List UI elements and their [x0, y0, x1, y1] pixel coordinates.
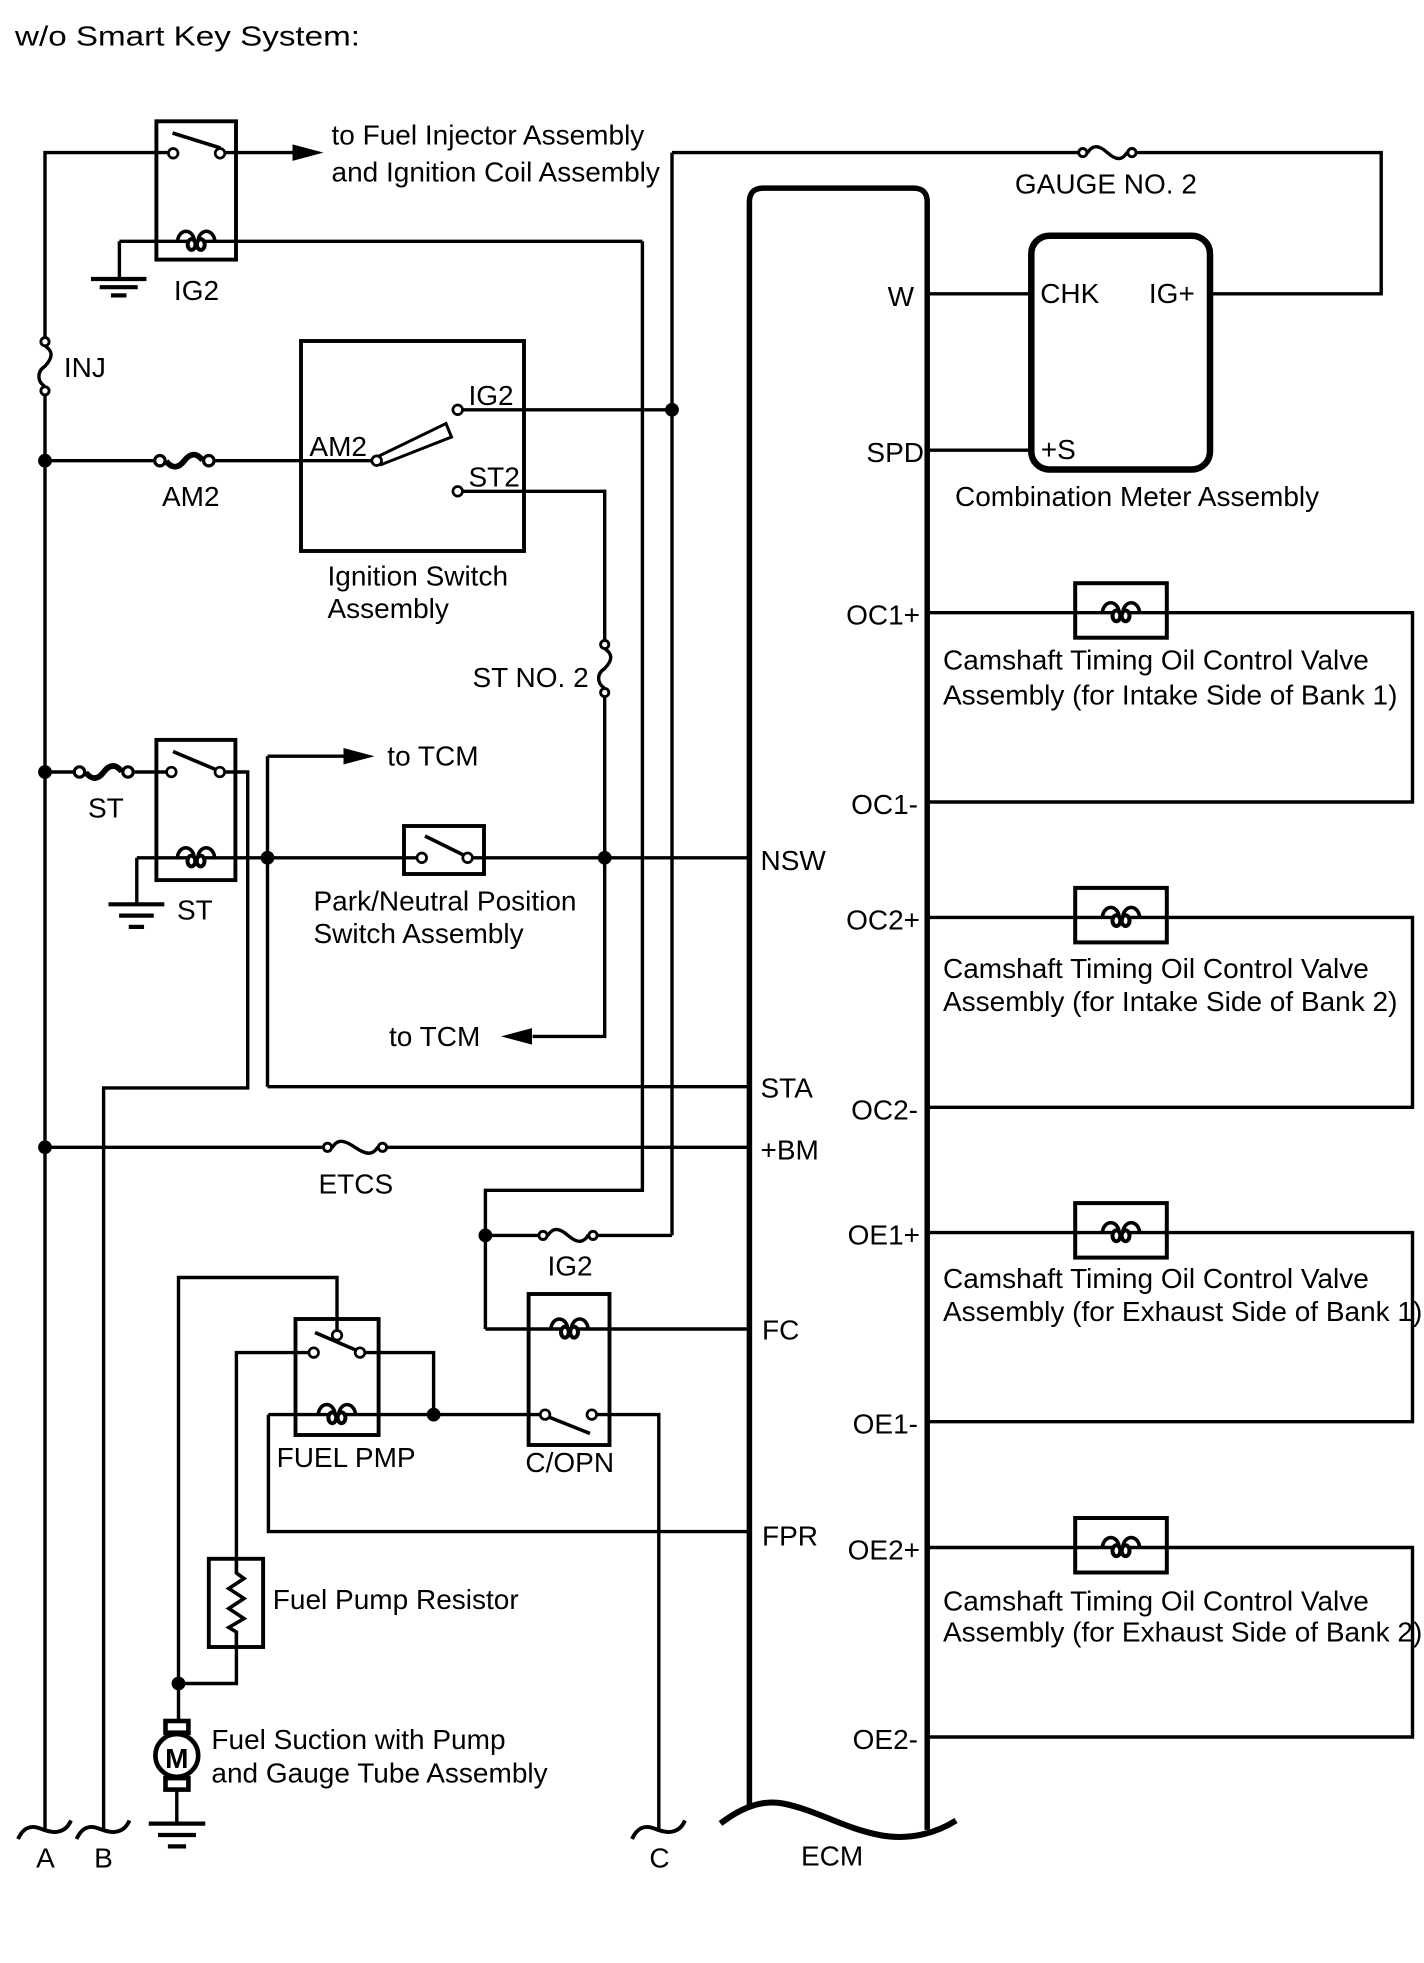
- wire FUEL PMP left contact to resistor: [236, 1353, 309, 1559]
- svg-text:NSW: NSW: [761, 845, 827, 876]
- svg-text:Switch Assembly: Switch Assembly: [314, 918, 524, 949]
- fuse ST: [86, 766, 122, 778]
- svg-text:ST: ST: [88, 793, 124, 824]
- contact park/neutral left: [417, 853, 427, 863]
- wire OE1 loop: [927, 1233, 1412, 1422]
- wire NSW line left: [137, 856, 417, 859]
- svg-text:OC2-: OC2-: [851, 1094, 918, 1125]
- coil IG2 relay: [178, 231, 195, 242]
- motor circle M: [155, 1734, 198, 1777]
- svg-text:IG2: IG2: [548, 1251, 593, 1282]
- relay FUEL PMP box: [296, 1319, 379, 1435]
- wire OC1 loop: [927, 613, 1412, 802]
- wire ST relay output to B: [104, 772, 248, 1829]
- junction dot ETCS row: [38, 1140, 52, 1154]
- svg-text:Assembly (for Exhaust Side of: Assembly (for Exhaust Side of Bank 1): [943, 1296, 1422, 1327]
- contact ignition IG2: [453, 405, 463, 415]
- svg-text:Camshaft Timing Oil Control Va: Camshaft Timing Oil Control Valve: [943, 1263, 1369, 1294]
- junction dot IG2 fuse node: [479, 1229, 493, 1243]
- svg-text:C: C: [649, 1843, 669, 1874]
- wire to TCM upper: [268, 755, 346, 758]
- connector C squiggle: [632, 1821, 685, 1840]
- svg-text:to TCM: to TCM: [389, 1021, 480, 1052]
- resistor zigzag: [229, 1559, 244, 1647]
- svg-text:OE1+: OE1+: [848, 1220, 920, 1251]
- solenoid valve OC2 box: [1075, 888, 1167, 943]
- svg-text:OE2+: OE2+: [848, 1535, 920, 1566]
- fuse ST NO. 2: [599, 649, 611, 688]
- contact ignition ST2: [453, 487, 463, 497]
- wire FUEL PMP top feed: [179, 1278, 338, 1684]
- svg-text:and Gauge Tube Assembly: and Gauge Tube Assembly: [211, 1758, 547, 1789]
- svg-text:FUEL PMP: FUEL PMP: [277, 1442, 416, 1473]
- wire IG2 fuse row: [485, 1234, 537, 1237]
- fuse AM2: [166, 455, 203, 467]
- wire C/OPN output to C: [597, 1415, 659, 1829]
- svg-text:C/OPN: C/OPN: [525, 1447, 614, 1478]
- wire FUEL PMP coil: [268, 1413, 540, 1416]
- svg-text:Park/Neutral Position: Park/Neutral Position: [314, 886, 577, 917]
- wire A-line battery feed: [45, 153, 169, 338]
- switch FUEL PMP lever: [315, 1333, 362, 1353]
- svg-text:Assembly: Assembly: [328, 593, 449, 624]
- wire FUEL PMP right contact: [365, 1353, 434, 1415]
- junction dot IG2 node: [665, 403, 679, 417]
- switch park/neutral lever: [425, 836, 466, 856]
- ground IG2 relay: [91, 277, 147, 281]
- svg-text:STA: STA: [761, 1072, 814, 1103]
- svg-text:+S: +S: [1041, 434, 1076, 465]
- svg-text:Fuel Pump Resistor: Fuel Pump Resistor: [273, 1584, 519, 1615]
- svg-text:Camshaft Timing Oil Control Va: Camshaft Timing Oil Control Valve: [943, 1586, 1369, 1617]
- wire ST row: [45, 770, 73, 773]
- wire ST NO.2 to TCM: [533, 697, 605, 1037]
- solenoid valve OE2 box: [1075, 1518, 1167, 1573]
- svg-text:ECM: ECM: [801, 1841, 863, 1872]
- svg-text:to TCM: to TCM: [387, 741, 478, 772]
- switch ignition lever wedge: [379, 424, 452, 465]
- switch C/OPN lever: [548, 1417, 591, 1434]
- contact FUEL PMP left: [309, 1348, 319, 1358]
- motor top terminal: [166, 1721, 189, 1733]
- wire GAUGE row: [672, 151, 1078, 154]
- contact park/neutral right: [463, 853, 473, 863]
- svg-text:Assembly (for Intake Side of B: Assembly (for Intake Side of Bank 1): [943, 680, 1397, 711]
- wire STA: [268, 1085, 750, 1088]
- svg-text:CHK: CHK: [1040, 278, 1099, 309]
- coil valve OE1: [1102, 1223, 1119, 1234]
- svg-text:FPR: FPR: [762, 1520, 818, 1551]
- coil valve OC2: [1102, 907, 1119, 918]
- contact ignition AM2: [372, 456, 382, 466]
- svg-text:A: A: [36, 1843, 55, 1874]
- wire ignition ST2 output: [463, 491, 605, 640]
- wire FPR line: [268, 1415, 749, 1532]
- ECM torn bottom: [721, 1802, 957, 1837]
- svg-text:M: M: [165, 1743, 188, 1774]
- svg-text:Fuel Suction with Pump: Fuel Suction with Pump: [211, 1724, 505, 1755]
- connector B squiggle: [77, 1821, 130, 1840]
- wire C/OPN coil to FC: [485, 1327, 749, 1330]
- svg-text:SPD: SPD: [866, 437, 924, 468]
- svg-text:Assembly (for Exhaust Side of: Assembly (for Exhaust Side of Bank 2): [943, 1617, 1422, 1648]
- relay IG2 box: [156, 121, 236, 259]
- fuse INJ: [39, 346, 51, 386]
- coil C/OPN: [551, 1319, 568, 1330]
- coil valve OE2: [1102, 1538, 1119, 1549]
- svg-text:INJ: INJ: [64, 352, 106, 383]
- svg-text:and Ignition Coil Assembly: and Ignition Coil Assembly: [332, 157, 660, 188]
- svg-text:to Fuel Injector Assembly: to Fuel Injector Assembly: [332, 120, 645, 151]
- arrow to Fuel Injector: [293, 144, 324, 161]
- ECM box: [749, 188, 927, 1830]
- junction dot ST row: [38, 765, 52, 779]
- svg-text:Combination Meter Assembly: Combination Meter Assembly: [955, 481, 1319, 512]
- wire TCM-STA vertical: [266, 756, 269, 1086]
- svg-text:ETCS: ETCS: [319, 1169, 394, 1200]
- svg-text:OE2-: OE2-: [853, 1724, 918, 1755]
- svg-text:IG2: IG2: [469, 380, 514, 411]
- fuse IG2: [548, 1229, 589, 1241]
- arrow to TCM upper: [344, 748, 375, 765]
- ground motor: [149, 1821, 206, 1825]
- contact ST relay left: [167, 767, 177, 777]
- svg-text:OC1-: OC1-: [851, 789, 918, 820]
- wire IG2 vertical: [670, 153, 673, 1236]
- svg-text:+BM: +BM: [761, 1134, 819, 1165]
- coil ST relay: [177, 848, 194, 859]
- contact IG2 relay right: [215, 149, 225, 159]
- contact FUEL PMP top: [332, 1331, 342, 1341]
- svg-text:Camshaft Timing Oil Control Va: Camshaft Timing Oil Control Valve: [943, 953, 1369, 984]
- svg-text:OC2+: OC2+: [846, 904, 920, 935]
- svg-text:Camshaft Timing Oil Control Va: Camshaft Timing Oil Control Valve: [943, 645, 1369, 676]
- wire AM2 row: [45, 459, 153, 462]
- park/neutral switch box: [404, 826, 484, 874]
- arrow to TCM lower: [501, 1028, 532, 1045]
- solenoid valve OC1 box: [1075, 583, 1167, 638]
- wire IG2 coil feed down: [485, 241, 642, 1329]
- wire ST relay ground stem: [135, 858, 138, 903]
- switch IG2 relay lever: [173, 133, 221, 148]
- contact IG2 relay left: [168, 149, 178, 159]
- junction dot NSW-TCM-STA: [261, 851, 275, 865]
- svg-text:ST NO. 2: ST NO. 2: [473, 662, 589, 693]
- junction dot AM2 row: [38, 454, 52, 468]
- wire ETCS row: [45, 1146, 322, 1149]
- wire pin W: [927, 292, 1031, 295]
- svg-text:GAUGE NO. 2: GAUGE NO. 2: [1015, 169, 1197, 200]
- ground ST relay: [109, 902, 165, 906]
- wire IG2 relay switch output with arrow: [225, 151, 292, 154]
- contact FUEL PMP right: [355, 1348, 365, 1358]
- wire motor feed: [177, 1684, 180, 1721]
- solenoid valve OE1 box: [1075, 1203, 1167, 1258]
- svg-text:IG+: IG+: [1149, 278, 1195, 309]
- wire IG2 relay ground stem: [118, 241, 121, 277]
- coil FUEL PMP: [318, 1405, 335, 1416]
- svg-text:W: W: [888, 281, 915, 312]
- switch ST relay lever: [173, 752, 218, 771]
- svg-text:OE1-: OE1-: [853, 1409, 918, 1440]
- svg-text:IG2: IG2: [174, 275, 219, 306]
- svg-text:AM2: AM2: [162, 481, 220, 512]
- wire OC2 loop: [927, 917, 1412, 1107]
- motor bottom terminal: [166, 1778, 189, 1790]
- junction dot FUEL PMP coil node: [427, 1408, 441, 1422]
- wire pin SPD: [927, 449, 1031, 452]
- fuse GAUGE NO. 2: [1087, 147, 1127, 159]
- svg-text:ST: ST: [177, 895, 213, 926]
- wire IG2 relay coil: [119, 240, 642, 243]
- junction dot NSW-ST2: [598, 851, 612, 865]
- relay ST box: [156, 740, 235, 880]
- coil valve OC1: [1102, 603, 1119, 614]
- resistor box: [209, 1559, 263, 1647]
- svg-text:FC: FC: [762, 1314, 799, 1345]
- fuse ETCS: [332, 1141, 378, 1153]
- wire ignition IG2 output: [463, 408, 673, 411]
- wire OE2 loop: [927, 1548, 1412, 1738]
- svg-text:B: B: [94, 1843, 113, 1874]
- svg-text:AM2: AM2: [309, 431, 367, 462]
- contact ST relay right: [215, 767, 225, 777]
- svg-text:Assembly (for Intake Side of B: Assembly (for Intake Side of Bank 2): [943, 986, 1397, 1017]
- junction dot motor node: [172, 1677, 186, 1691]
- contact C/OPN right: [587, 1410, 597, 1420]
- combination meter box: [1031, 236, 1210, 470]
- wire NSW line right: [472, 856, 749, 859]
- wire motor ground stem: [175, 1790, 178, 1822]
- wire resistor to motor junction: [179, 1647, 237, 1684]
- contact C/OPN left: [540, 1410, 550, 1420]
- connector A squiggle: [18, 1821, 71, 1840]
- svg-text:ST2: ST2: [469, 462, 520, 493]
- svg-text:w/o Smart Key System:: w/o Smart Key System:: [14, 21, 360, 52]
- svg-text:Ignition Switch: Ignition Switch: [328, 561, 509, 592]
- ignition switch box: [301, 341, 524, 551]
- relay C/OPN box: [529, 1294, 610, 1445]
- svg-text:OC1+: OC1+: [846, 600, 920, 631]
